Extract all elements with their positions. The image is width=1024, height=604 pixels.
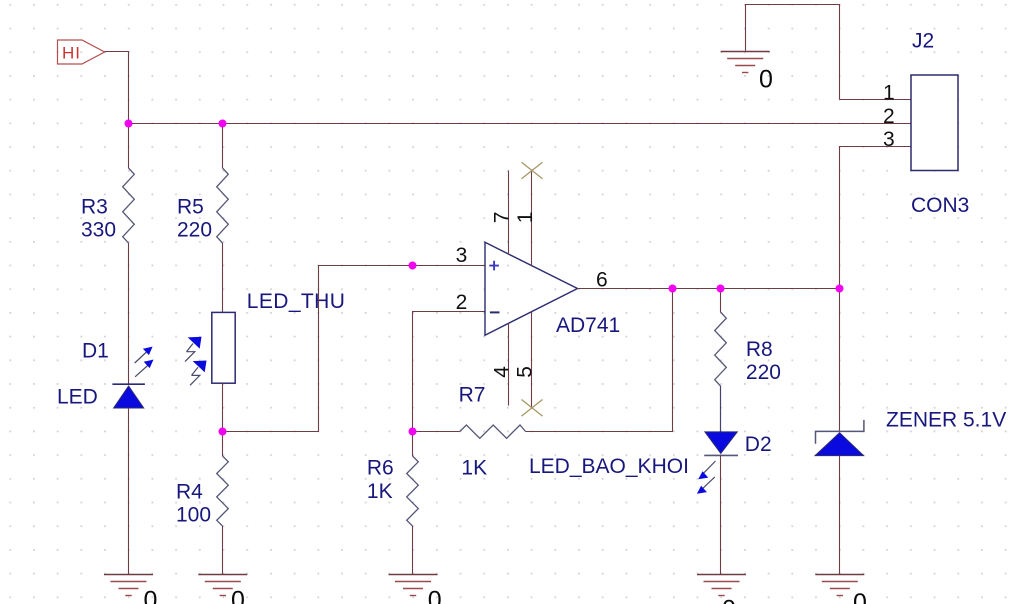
svg-text:LED_BAO_KHOI: LED_BAO_KHOI — [529, 455, 689, 478]
wire R4 to ground — [222, 526, 224, 575]
wire R7 to output node — [526, 289, 673, 432]
power symbol HI — [58, 40, 105, 64]
svg-text:R5: R5 — [177, 196, 204, 219]
wire output node to R8 — [720, 289, 722, 313]
op-amp pin 7 — [508, 171, 510, 255]
wire J2 pin3 — [840, 147, 912, 289]
svg-text:AD741: AD741 — [556, 314, 620, 337]
wire op-amp output — [578, 288, 840, 290]
wire op-amp pin2 to R6/R7 node — [413, 312, 486, 432]
wire bus to R3 — [128, 124, 130, 169]
resistor R6 — [412, 432, 414, 457]
wire R8 to D2 — [720, 386, 722, 432]
wire output node to zener — [839, 289, 841, 432]
svg-text:D2: D2 — [745, 433, 772, 456]
svg-text:0: 0 — [853, 589, 867, 604]
svg-text:R6: R6 — [367, 457, 394, 480]
svg-text:0: 0 — [144, 587, 158, 604]
wire bus to R5 — [222, 124, 224, 169]
svg-text:D1: D1 — [82, 340, 109, 363]
resistor R5 — [217, 168, 229, 243]
ground 0 (zener) — [815, 575, 867, 604]
wire LED_THU to node — [222, 383, 224, 431]
svg-text:0: 0 — [428, 587, 442, 604]
svg-text:2: 2 — [883, 105, 895, 128]
svg-text:0: 0 — [231, 587, 245, 604]
svg-text:3: 3 — [456, 244, 468, 267]
op-amp pin 5 — [531, 312, 533, 408]
svg-text:ZENER 5.1V: ZENER 5.1V — [886, 409, 1006, 432]
svg-text:HI: HI — [62, 44, 81, 63]
wire R3 to D1 — [128, 243, 130, 384]
svg-text:220: 220 — [177, 219, 212, 242]
ground 0 (R6) — [389, 575, 442, 604]
svg-text:J2: J2 — [912, 30, 934, 53]
svg-text:R4: R4 — [176, 481, 203, 504]
wire main bus y=123 — [129, 123, 912, 125]
ground 0 (D1) — [104, 575, 157, 604]
resistor R4 — [217, 456, 229, 526]
ground 0 (R4) — [198, 575, 247, 604]
LED D1 — [112, 347, 153, 408]
svg-text:220: 220 — [746, 361, 781, 384]
wire node to op-amp pin3 — [223, 266, 486, 432]
svg-text:330: 330 — [81, 219, 116, 242]
no-connect X pin 5 — [522, 400, 543, 417]
svg-text:100: 100 — [176, 504, 211, 527]
wire node to R4 — [222, 432, 224, 457]
svg-text:3: 3 — [883, 128, 895, 151]
svg-text:2: 2 — [456, 291, 468, 314]
svg-text:LED_THU: LED_THU — [247, 290, 345, 313]
wire D1 to ground — [128, 408, 130, 575]
svg-text:1: 1 — [883, 82, 895, 105]
resistor R8 — [715, 312, 727, 386]
wire D2 to ground — [720, 455, 722, 574]
svg-text:1K: 1K — [367, 480, 393, 503]
svg-text:7: 7 — [490, 212, 513, 224]
svg-text:5: 5 — [513, 366, 536, 378]
wire zener to ground — [839, 456, 841, 575]
svg-text:CON3: CON3 — [911, 194, 969, 217]
svg-text:4: 4 — [490, 366, 513, 378]
wire R6 to ground — [412, 526, 414, 575]
ground 0 (top) — [721, 52, 773, 94]
svg-text:1: 1 — [514, 212, 537, 224]
op-amp pin 1 — [531, 171, 533, 267]
svg-text:LED: LED — [57, 386, 98, 409]
svg-text:R8: R8 — [746, 338, 773, 361]
svg-text:0: 0 — [722, 596, 736, 604]
no-connect X pin 1 — [522, 162, 543, 179]
resistor R3 — [123, 168, 135, 243]
zener diode D3 — [815, 420, 864, 456]
wire R5 to LED_THU — [222, 243, 224, 312]
svg-text:R3: R3 — [81, 196, 108, 219]
svg-text:R7: R7 — [459, 384, 486, 407]
wire HI to node — [105, 52, 129, 124]
ground 0 (D2) — [697, 575, 746, 604]
svg-text:0: 0 — [759, 66, 773, 94]
wire J2 pin1 — [840, 99, 912, 101]
op-amp pin 4 — [508, 323, 510, 405]
svg-text:1K: 1K — [461, 457, 487, 480]
LED D2 — [697, 432, 738, 494]
connector J2 — [911, 75, 958, 171]
resistor R7 — [413, 431, 460, 433]
wire top ground run — [746, 5, 840, 100]
op-amp U1 AD741 — [485, 242, 578, 335]
photo device LED_THU — [185, 312, 235, 385]
junction node dots — [125, 120, 133, 128]
